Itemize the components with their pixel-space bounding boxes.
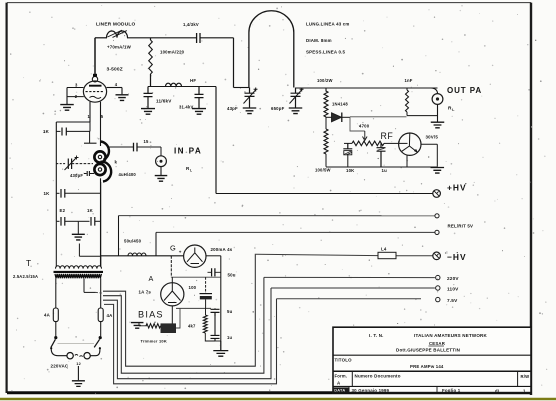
svg-text:200mA 4s: 200mA 4s: [211, 247, 233, 252]
svg-text:TITOLO: TITOLO: [335, 357, 353, 362]
grid wire left: [67, 87, 83, 89]
pin 5 wire: [100, 102, 102, 146]
svg-text:7.5V: 7.5V: [447, 298, 458, 303]
fuse F1 4A: [53, 308, 58, 322]
svg-text:100mA/220: 100mA/220: [160, 50, 185, 55]
terminal relay 2: [435, 230, 439, 234]
svg-text:+70mA/1W: +70mA/1W: [107, 45, 132, 50]
wire A bottom: [171, 306, 173, 324]
svg-text:50u: 50u: [228, 273, 236, 278]
svg-text:1K: 1K: [43, 129, 50, 134]
wire relay 1: [119, 215, 435, 217]
tube G: [184, 245, 206, 267]
svg-text:+: +: [179, 250, 182, 255]
resistor 4k7 vertical: [205, 308, 207, 315]
plate choke RFC2: [406, 88, 408, 90]
row3 capacitor right: [78, 220, 89, 222]
wire column bottom: [220, 341, 222, 350]
svg-text:Trimmer 10K: Trimmer 10K: [141, 339, 167, 344]
svg-text:100: 100: [189, 285, 197, 290]
ground bias: [131, 323, 144, 329]
ground bias rail: [431, 168, 445, 174]
parasitic suppressor choke L1: [95, 37, 107, 39]
svg-text:43pF: 43pF: [227, 106, 238, 111]
svg-text:Numero Documento: Numero Documento: [355, 374, 401, 379]
terminal -HV: [433, 252, 441, 260]
cathode resistor row 1K: [56, 130, 60, 132]
svg-text:30 Gennaio 1999: 30 Gennaio 1999: [352, 388, 390, 393]
wire 110V: [271, 287, 435, 289]
svg-text:100/5W: 100/5W: [315, 168, 331, 173]
svg-text:5u: 5u: [227, 309, 233, 314]
svg-text:HF: HF: [190, 78, 196, 83]
potentiometer 4700: [344, 142, 352, 144]
transformer core: [54, 271, 104, 273]
transformer secondary: [55, 274, 101, 278]
ground IN PA: [155, 176, 168, 182]
svg-text:T: T: [26, 258, 31, 268]
triode V1 envelope: [83, 81, 106, 102]
svg-text:220V: 220V: [447, 276, 459, 281]
row3 ground: [77, 221, 79, 234]
svg-text:L: L: [190, 168, 192, 172]
ground bypass cap1: [141, 109, 155, 115]
svg-text:1A 7s: 1A 7s: [139, 290, 152, 295]
svg-text:OUT PA: OUT PA: [447, 86, 482, 95]
bypass capacitor 11/6kV: [144, 87, 153, 109]
wire sense to choke: [350, 116, 407, 118]
svg-text:4700: 4700: [359, 124, 370, 129]
choke bottom wire: [407, 115, 438, 117]
svg-text:E2: E2: [60, 208, 66, 213]
wire tank bottom: [234, 87, 250, 89]
svg-text:A: A: [149, 274, 154, 283]
svg-text:1,4/3kV: 1,4/3kV: [183, 22, 199, 27]
trimmer capacitor 430pF: [56, 163, 66, 165]
ground bypass cap2: [192, 109, 206, 115]
wire -HV: [256, 254, 378, 255]
plug contact left: [67, 353, 73, 359]
bus wire 110V loop: [103, 288, 271, 379]
svg-text:15: 15: [144, 139, 150, 144]
wire plate top: [94, 38, 96, 77]
svg-text:RF: RF: [381, 131, 394, 141]
plate HV choke 100mA: [150, 38, 152, 40]
transformer top leg left: [55, 221, 57, 266]
earth ground: [72, 381, 85, 387]
variable capacitor 43pF: [245, 88, 255, 108]
svg-text:BIAS: BIAS: [138, 310, 164, 320]
svg-text:4k7: 4k7: [188, 324, 196, 329]
wire relay 2 riser: [155, 232, 157, 255]
svg-text:IN PA: IN PA: [174, 147, 202, 156]
choke 50u squiggle: [128, 253, 146, 256]
fuse F2 4A: [98, 308, 103, 322]
svg-text:+HV: +HV: [447, 183, 467, 193]
wire 7.5V: [277, 298, 422, 300]
wire bias to column: [176, 307, 211, 309]
electrolytic cap 10K: [343, 143, 352, 148]
svg-text:DATA: DATA: [334, 388, 345, 393]
capacitor 1u bias: [211, 316, 220, 341]
svg-text:220VAC: 220VAC: [51, 364, 69, 369]
diode 1N4148: [326, 116, 332, 118]
bottom bias rail: [326, 166, 437, 168]
svg-text:1K: 1K: [87, 208, 94, 213]
wire 220V: [264, 276, 435, 278]
svg-text:4A: 4A: [44, 313, 51, 318]
left column wire: [55, 122, 57, 221]
svg-text:REL/RIT 5V: REL/RIT 5V: [448, 224, 474, 229]
bus wire 220V loop: [103, 277, 264, 373]
wire G right: [206, 255, 221, 257]
earth ground wire: [77, 366, 79, 380]
row3 capacitor left: [56, 220, 59, 222]
ground 650pF: [289, 108, 303, 114]
transformer primary: [56, 266, 102, 269]
svg-text:1u: 1u: [382, 168, 388, 173]
electrolytic 100u: [200, 293, 213, 295]
svg-text:di: di: [495, 388, 499, 393]
capacitor 1u: [377, 143, 386, 167]
HV rail: [148, 86, 216, 88]
transformer top leg mid: [78, 244, 80, 257]
terminal 220V: [436, 275, 440, 279]
svg-text:100/2W: 100/2W: [317, 78, 333, 83]
svg-text:L4: L4: [381, 247, 387, 252]
wire 50u rail: [101, 255, 184, 257]
svg-text:1K: 1K: [44, 191, 51, 196]
tank line inductor: [249, 11, 294, 88]
tube top cap: [92, 77, 97, 82]
svg-text:3-500Z: 3-500Z: [107, 67, 123, 73]
output rail: [296, 87, 438, 89]
triode cathode: [90, 96, 102, 98]
transformer bottom leg left: [55, 278, 57, 308]
connector OUT PA: [431, 88, 438, 94]
mechanical coupling: [58, 343, 95, 345]
wire choke bottom: [100, 178, 102, 266]
svg-text:2.5A2.5/15A: 2.5A2.5/15A: [13, 274, 38, 279]
svg-text:Form.: Form.: [335, 373, 348, 378]
svg-text:LUNG.LINEA 43 cm: LUNG.LINEA 43 cm: [306, 22, 350, 27]
svg-text:LINER MODULO: LINER MODULO: [96, 22, 136, 28]
bias trimmer pot: [146, 324, 161, 328]
terminal 110V: [436, 286, 440, 290]
ground grid left: [60, 105, 74, 111]
grid wire right: [107, 87, 122, 89]
svg-text:PRE AMPw 144: PRE AMPw 144: [410, 364, 444, 369]
svg-text:R/W: R/W: [521, 374, 530, 379]
left grid column lower: [100, 182, 102, 267]
filament bifilar choke: [94, 151, 105, 162]
svg-text:1u: 1u: [227, 335, 233, 340]
terminal 7.5V: [436, 297, 440, 301]
capacitor 5u: [211, 308, 220, 316]
switch pole left: [54, 336, 57, 339]
wire relay 2: [156, 231, 435, 233]
switch pole right: [90, 349, 100, 356]
variable capacitor 650pF: [291, 88, 301, 108]
svg-text:Dott.GIUSEPPE BALLETTIN: Dott.GIUSEPPE BALLETTIN: [396, 348, 460, 353]
svg-text:Foglio 1: Foglio 1: [442, 388, 461, 393]
svg-text:1N4148: 1N4148: [332, 102, 348, 107]
bus wire 7.5V loop: [104, 299, 277, 384]
wire A junction: [170, 256, 172, 277]
capacitor 50u: [212, 268, 215, 276]
row2 capacitor left: [56, 192, 59, 194]
ground grid right: [116, 95, 129, 101]
svg-text:650pF: 650pF: [271, 106, 285, 111]
svg-text:SPESS.LINEA 0.5: SPESS.LINEA 0.5: [306, 50, 346, 55]
svg-text:DIAM. 8mm: DIAM. 8mm: [306, 38, 332, 43]
wire collector out: [421, 143, 437, 145]
svg-text:10K: 10K: [346, 168, 355, 173]
plug squiggle: [75, 355, 83, 357]
wire filter row: [171, 276, 221, 278]
svg-text:G: G: [170, 244, 176, 253]
wire to pot wiper: [350, 117, 365, 131]
svg-text:31.4kV: 31.4kV: [179, 105, 193, 110]
svg-text:−HV: −HV: [447, 252, 467, 262]
svg-text:11/6kV: 11/6kV: [156, 99, 172, 104]
svg-text:CESAR: CESAR: [429, 341, 446, 346]
svg-text:110V: 110V: [447, 286, 459, 291]
input capacitor 15: [134, 143, 138, 152]
RF choke HF: [166, 83, 182, 86]
svg-text:30V/5: 30V/5: [426, 135, 439, 140]
wire +HV riser: [215, 87, 217, 194]
triode anode bar: [89, 85, 102, 87]
terminal +HV: [433, 190, 441, 198]
svg-text:12: 12: [76, 362, 81, 366]
bypass capacitor 31/4kV: [195, 87, 204, 109]
resistor 100/2W: [324, 88, 328, 117]
wire +HV: [216, 193, 433, 195]
svg-text:I. T. N.: I. T. N.: [369, 333, 384, 338]
transformer top leg right: [100, 256, 102, 266]
bus wire -HV loop: [103, 254, 256, 366]
svg-text:4A: 4A: [107, 313, 114, 318]
blocking capacitor 1,4/3kV: [197, 33, 200, 43]
svg-text:ITALIAN AMATEURS NETWORK: ITALIAN AMATEURS NETWORK: [414, 333, 488, 338]
svg-text:k: k: [115, 160, 118, 165]
inductor L4: [378, 252, 396, 258]
wire relay 1 riser: [118, 216, 120, 256]
svg-text:50u/450: 50u/450: [124, 239, 142, 244]
svg-text:430pF: 430pF: [70, 173, 83, 178]
input coupling wire: [109, 146, 133, 148]
resistor 100/5W: [325, 117, 327, 129]
secondary center tap: [83, 279, 85, 293]
title block frame: [333, 327, 531, 392]
ground OUT PA: [431, 122, 445, 128]
plug contact right: [84, 353, 90, 359]
wire cap to tank: [233, 38, 235, 88]
triode grid dashes: [86, 91, 104, 93]
svg-text:1nF: 1nF: [405, 78, 413, 83]
transistor Q1: [399, 133, 421, 155]
pin 1 wire: [89, 102, 91, 122]
connector IN PA: [156, 156, 167, 167]
svg-text:4uH/400: 4uH/400: [119, 172, 137, 177]
ground filter column: [213, 351, 228, 357]
terminal relay 1: [435, 214, 439, 218]
transformer bottom leg right: [100, 278, 102, 308]
tube A: [161, 283, 184, 306]
ground 43pF: [243, 108, 257, 114]
